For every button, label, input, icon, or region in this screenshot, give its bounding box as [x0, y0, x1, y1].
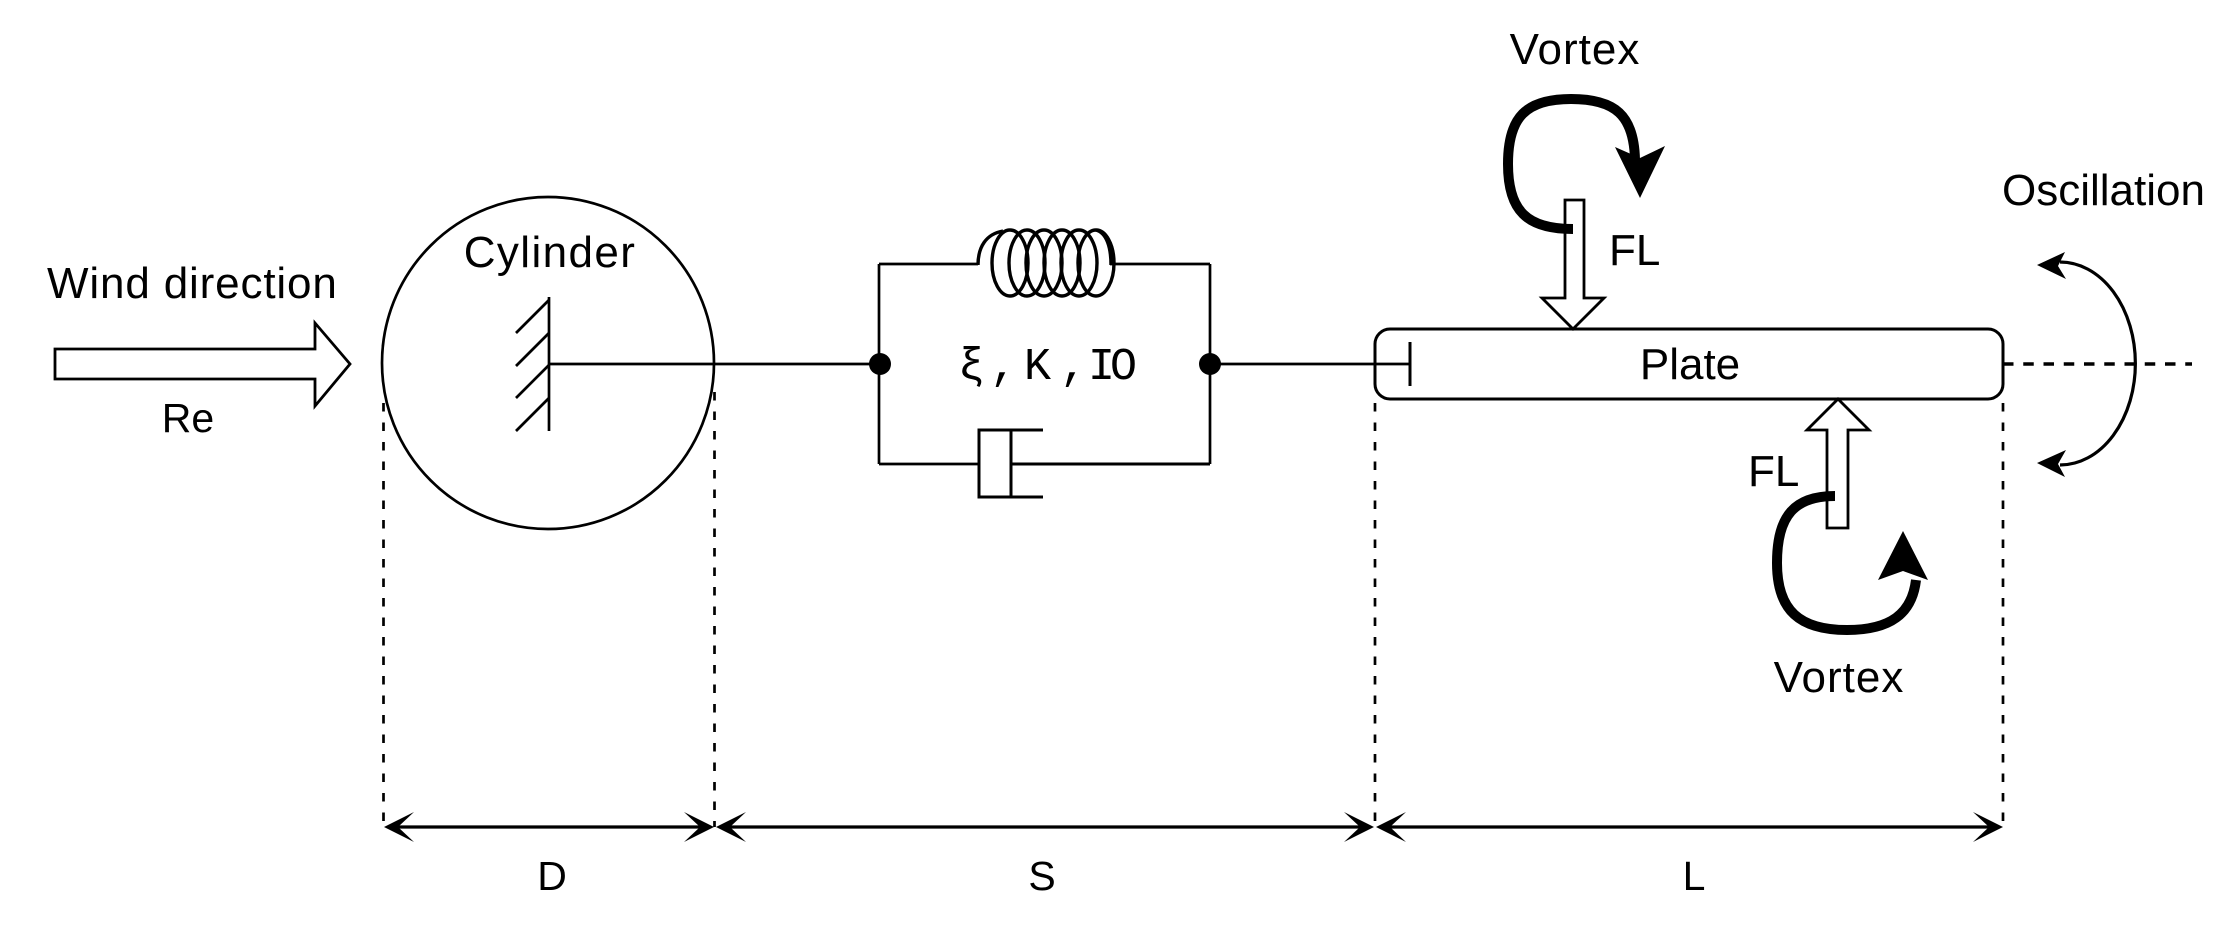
svg-text:Re: Re [162, 395, 214, 441]
svg-text:,: , [1060, 342, 1087, 393]
svg-text:O: O [1110, 342, 1137, 393]
svg-text:FL: FL [1609, 226, 1660, 275]
svg-text:L: L [1683, 853, 1706, 899]
svg-text:Vortex: Vortex [1510, 25, 1641, 74]
svg-text:FL: FL [1748, 447, 1799, 496]
svg-text:K: K [1024, 342, 1051, 393]
svg-text:Wind direction: Wind direction [47, 259, 338, 308]
svg-text:Cylinder: Cylinder [464, 228, 637, 277]
svg-text:S: S [1028, 853, 1055, 899]
svg-text:D: D [537, 853, 567, 899]
svg-text:,: , [990, 342, 1017, 393]
svg-text:ξ: ξ [958, 342, 985, 393]
svg-text:Oscillation: Oscillation [2002, 166, 2205, 215]
svg-text:Vortex: Vortex [1774, 653, 1905, 702]
svg-text:Plate: Plate [1640, 340, 1740, 389]
